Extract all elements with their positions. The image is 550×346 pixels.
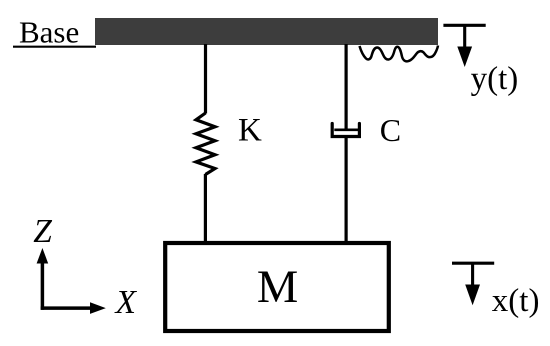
svg-text:y(t): y(t) bbox=[471, 61, 519, 97]
svg-text:K: K bbox=[238, 113, 262, 149]
svg-text:M: M bbox=[257, 262, 298, 313]
svg-text:C: C bbox=[380, 112, 401, 148]
svg-text:Base: Base bbox=[19, 15, 79, 50]
svg-text:X: X bbox=[114, 284, 138, 321]
svg-text:Z: Z bbox=[33, 213, 52, 250]
svg-text:x(t): x(t) bbox=[492, 283, 540, 319]
